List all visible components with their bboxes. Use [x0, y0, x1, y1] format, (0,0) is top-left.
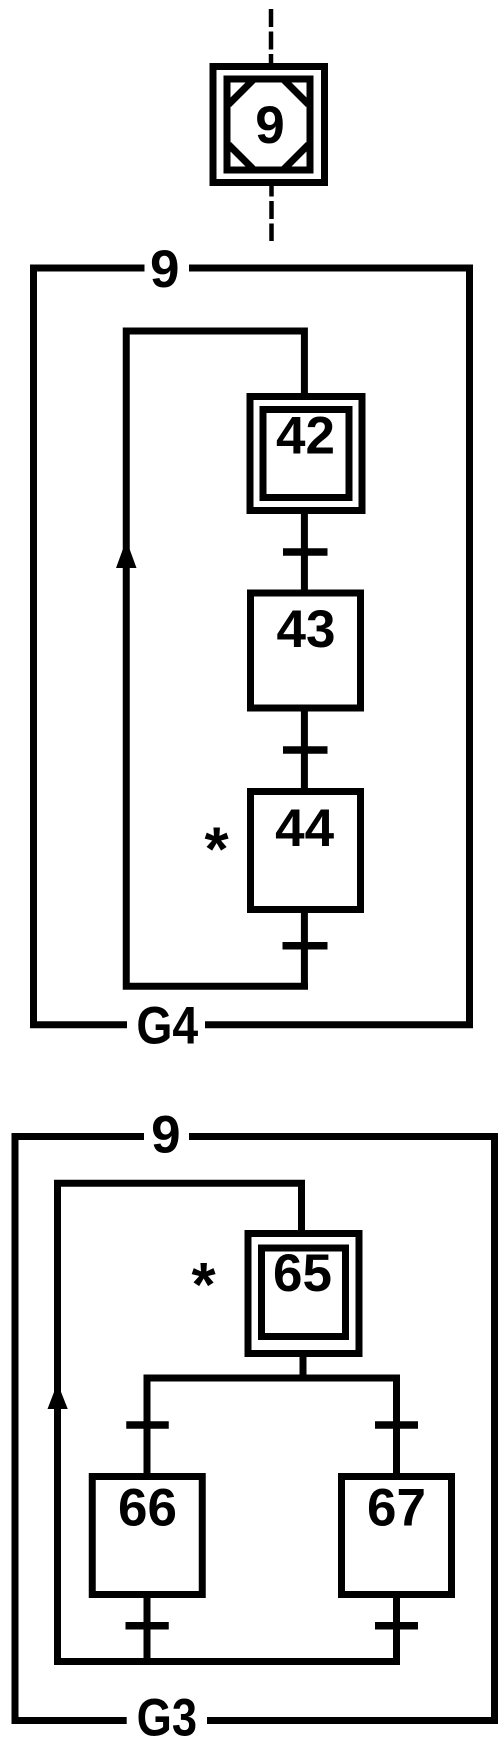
- svg-text:43: 43: [277, 600, 336, 659]
- macro-step M9 corner diagonal TL: [229, 80, 254, 105]
- arrow up on G3 loop: [48, 1383, 68, 1409]
- wire step43 to step44: [301, 712, 308, 789]
- wire step67 to bottom: [393, 1598, 400, 1662]
- step 65 outer (initial step double border): [248, 1234, 359, 1354]
- branch right vertical upper: [393, 1375, 400, 1474]
- step 67 box: [342, 1477, 452, 1595]
- svg-text:9: 9: [150, 240, 179, 299]
- transition t6 bar: [126, 1622, 169, 1630]
- svg-text:*: *: [205, 816, 230, 885]
- wire step44 to loop bottom: [301, 913, 308, 986]
- step 43 box: [251, 593, 361, 708]
- macro-step M9 corner diagonal BR: [284, 145, 309, 170]
- branch divergence horizontal: [144, 1375, 401, 1382]
- svg-text:*: *: [191, 1251, 216, 1320]
- svg-text:9: 9: [151, 1106, 180, 1165]
- macro-step M9 corner diagonal TR: [284, 80, 309, 105]
- step 66 box: [92, 1477, 202, 1595]
- enclosure frame G4: [34, 268, 470, 1025]
- svg-text:G4: G4: [136, 996, 198, 1056]
- transition t7 bar: [375, 1622, 418, 1630]
- dashed line below macro-step: [269, 186, 274, 241]
- svg-text:65: 65: [273, 1244, 332, 1303]
- macro-step M9 inner square: [227, 79, 310, 170]
- wire step42 to step43: [301, 514, 308, 590]
- svg-text:9: 9: [255, 96, 284, 155]
- branch left vertical upper: [144, 1375, 151, 1474]
- macro-step M9 outer square: [213, 67, 325, 183]
- white gap for label G3: [127, 1713, 207, 1729]
- step 65 inner border: [262, 1248, 346, 1337]
- white gap for label 9 on G4 frame: [145, 260, 190, 276]
- wire step66 to bottom: [144, 1598, 151, 1662]
- loop wire G3 left: [58, 1183, 302, 1661]
- wire step65 to branch: [300, 1354, 307, 1379]
- transition t5 bar: [375, 1421, 418, 1429]
- svg-text:66: 66: [118, 1479, 177, 1538]
- arrow up on G4 loop: [116, 540, 137, 568]
- loop wire top horizontal G4: [126, 331, 308, 986]
- svg-text:44: 44: [275, 799, 334, 858]
- white gap for label 9 on G3 frame: [144, 1129, 189, 1145]
- transition t1 bar: [283, 548, 328, 556]
- svg-text:G3: G3: [137, 1688, 197, 1742]
- svg-text:42: 42: [276, 407, 335, 466]
- white gap for label G4: [127, 1017, 205, 1033]
- step 42 inner border: [263, 410, 349, 498]
- macro-step M9 corner diagonal BL: [229, 145, 254, 170]
- dashed line above macro-step: [269, 9, 274, 63]
- enclosure frame G3: [15, 1137, 495, 1721]
- transition t4 bar: [126, 1421, 169, 1429]
- svg-text:67: 67: [367, 1479, 426, 1538]
- loop bottom horizontal G3: [58, 1658, 401, 1665]
- step 42 outer (initial step double border): [250, 397, 362, 511]
- step 44 box: [251, 792, 361, 910]
- transition t3 bar: [283, 942, 328, 950]
- transition t2 bar: [283, 746, 328, 754]
